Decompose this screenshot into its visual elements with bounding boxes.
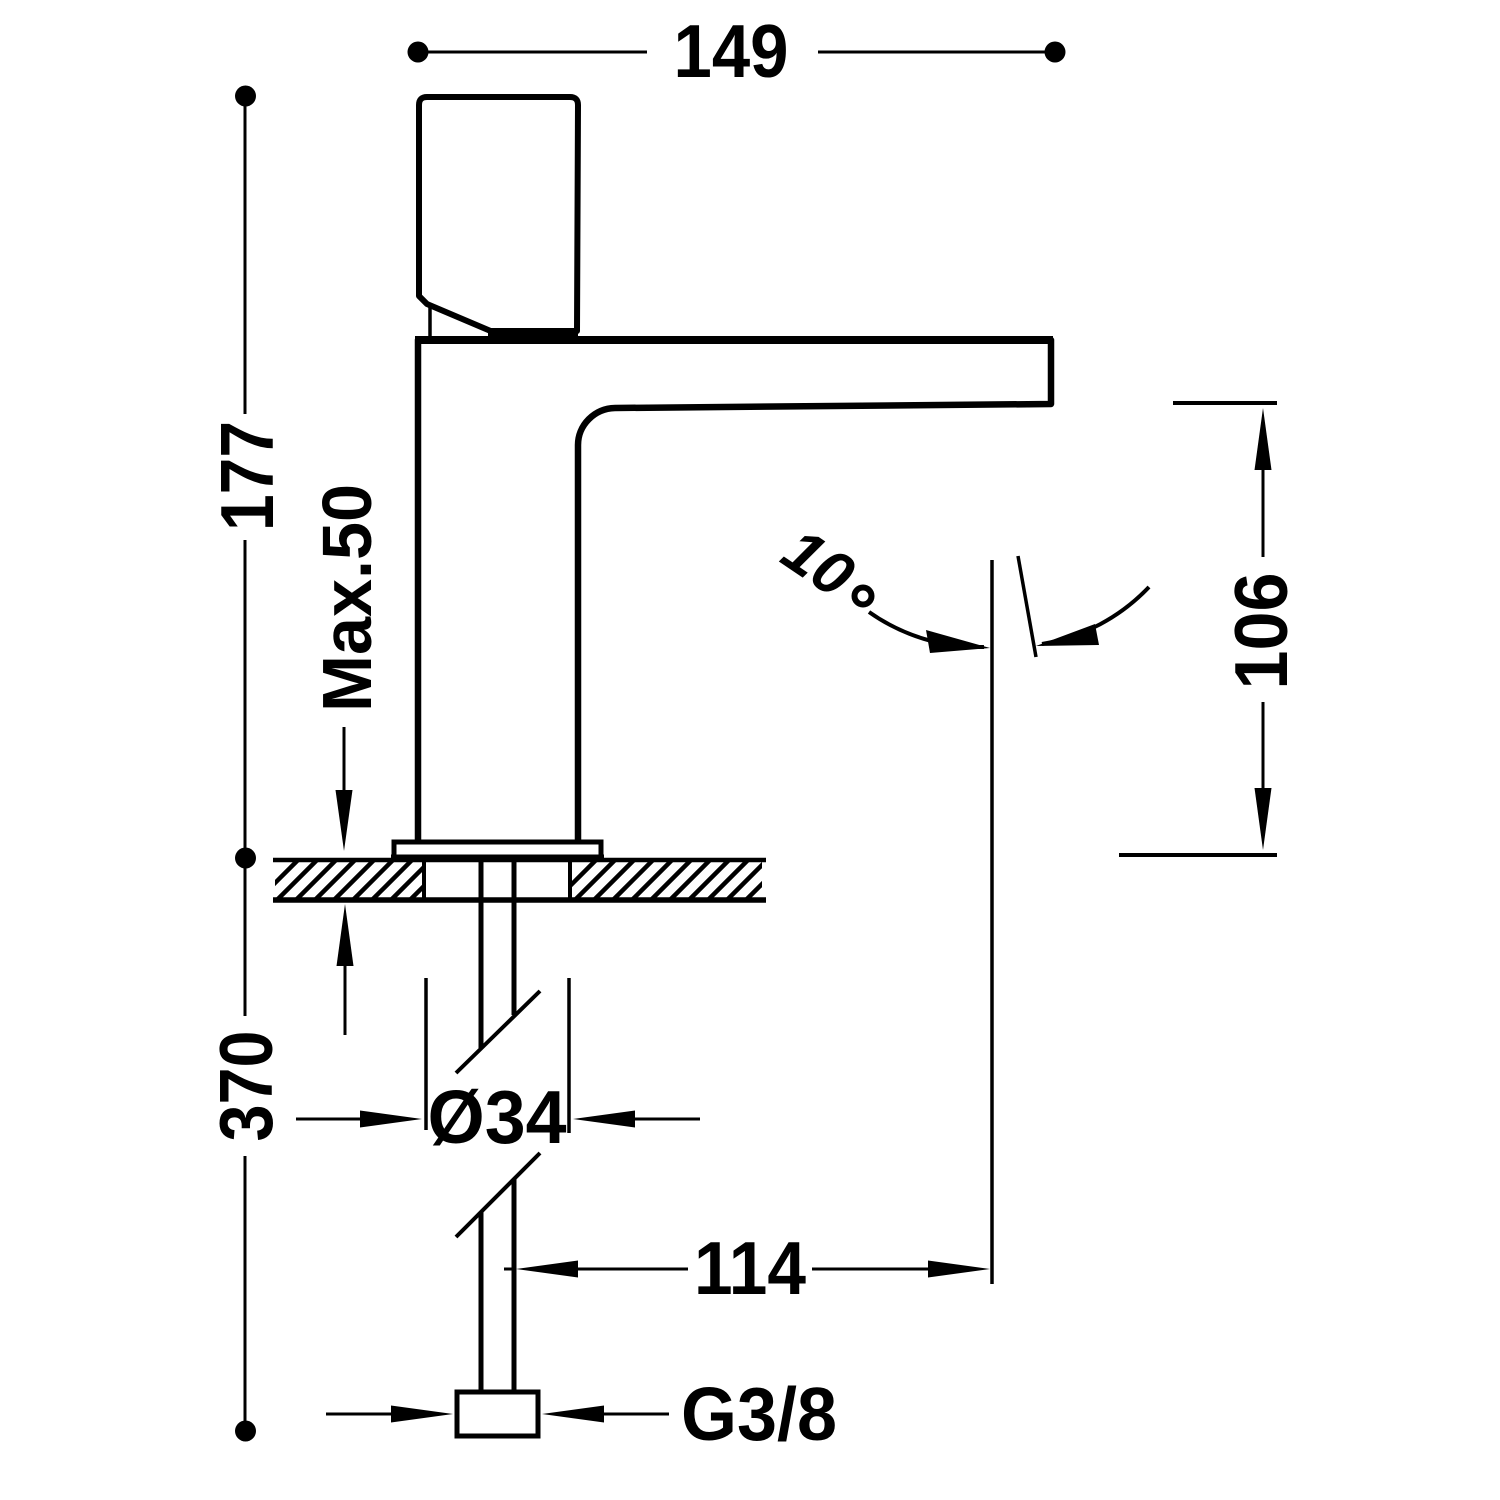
base plate — [394, 842, 601, 857]
diameter 34 extension line left — [424, 978, 428, 1130]
dimension 149 line — [426, 51, 647, 54]
angle arc right with arrowhead — [1042, 587, 1149, 644]
diameter 34 right arrow — [573, 1111, 635, 1128]
countertop top surface line — [273, 858, 766, 863]
pipe break upper diagonal — [456, 991, 540, 1073]
Max.50 down arrow — [343, 727, 346, 800]
diameter 34 extension line right — [567, 978, 571, 1133]
spout axis vertical reference line — [990, 560, 994, 1284]
countertop hatch right segment — [556, 840, 844, 900]
svg-text:Max.50: Max.50 — [308, 484, 386, 712]
dimension 106 bottom tick — [1119, 853, 1277, 857]
base plate bottom thick edge — [391, 855, 604, 862]
pipe break lower diagonal — [456, 1153, 540, 1237]
G3/8 left arrow — [326, 1413, 395, 1416]
angle arc left with arrowhead — [869, 612, 984, 647]
svg-text:149: 149 — [674, 9, 789, 93]
dimension 106 down arrow — [1262, 702, 1265, 790]
svg-text:G3/8: G3/8 — [681, 1372, 837, 1456]
dimension 177 line — [244, 103, 247, 414]
countertop hatch left segment — [258, 840, 508, 900]
supply pipe shank lower section — [479, 1212, 484, 1392]
spout top edge thick line — [415, 336, 1053, 344]
dimension 114 line — [504, 1268, 514, 1271]
handle base thick band — [488, 328, 578, 342]
svg-text:Ø34: Ø34 — [428, 1075, 567, 1159]
dimension 370 bottom dot — [235, 1421, 256, 1442]
supply pipe shank upper section — [479, 858, 484, 1048]
countertop bottom surface line — [273, 897, 766, 903]
svg-text:177: 177 — [205, 421, 289, 531]
dimension 177 top dot — [235, 86, 256, 107]
faucet body and spout outline — [418, 340, 1051, 842]
shared dot at countertop level — [235, 848, 256, 869]
svg-text:106: 106 — [1219, 573, 1303, 690]
svg-text:114: 114 — [694, 1226, 806, 1310]
G3/8 connector box — [457, 1392, 538, 1436]
dimension 106 top tick — [1173, 401, 1277, 405]
G3/8 right arrow — [542, 1406, 604, 1423]
dimension 149 left dot — [408, 42, 429, 63]
dimension 106 up arrow — [1255, 408, 1272, 470]
handle pivot notch line — [428, 305, 432, 338]
faucet handle lever — [419, 97, 578, 332]
dimension 370 line — [244, 864, 247, 1016]
tilted 10 degree reference line — [1018, 556, 1036, 657]
diameter 34 left arrow — [296, 1118, 370, 1121]
degree symbol — [855, 588, 872, 605]
dimension 149 right dot — [1045, 42, 1066, 63]
svg-text:370: 370 — [204, 1031, 288, 1142]
Max.50 up arrow — [344, 960, 347, 1035]
